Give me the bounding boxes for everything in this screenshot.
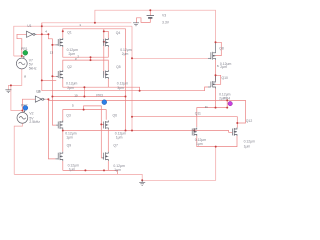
wire Q6 gate lead [101, 123, 103, 125]
wire net2-net3 link [90, 57, 92, 60]
op-amp buffer U1 [27, 31, 37, 37]
wire Q4 drain jog [104, 31, 109, 38]
svg-text:Q4: Q4 [116, 31, 121, 35]
svg-text:Q11: Q11 [195, 111, 201, 115]
wire Q8 drain bulk loop [216, 42, 222, 55]
wire bottom rail [14, 147, 216, 181]
svg-text:Q9: Q9 [67, 144, 72, 148]
svg-text:2μm: 2μm [67, 86, 74, 90]
svg-text:0.12μm: 0.12μm [244, 139, 256, 143]
transistor Q7 [104, 152, 109, 161]
svg-text:1μm: 1μm [69, 167, 76, 171]
wire net B long rail [48, 100, 245, 123]
wire V2 top [22, 99, 35, 110]
svg-text:U1: U1 [27, 24, 31, 28]
wire Q6-Q7 link [107, 129, 109, 151]
wire V2 bottom [14, 123, 22, 174]
wire net 5 spur [84, 106, 102, 158]
wire Q10 gate lead [208, 86, 211, 88]
battery V3 [147, 16, 154, 18]
wire Q8 drain lead [215, 42, 217, 51]
wire input A bus [41, 23, 43, 91]
ground (bottom) [139, 180, 145, 185]
wire Q4 drain-gate chain [103, 29, 105, 42]
svg-text:1μm: 1μm [66, 136, 73, 140]
transistor Q5 [104, 70, 109, 79]
svg-text:Q10: Q10 [222, 76, 229, 80]
wire Q2/Q5 source rail [63, 79, 140, 91]
wire Q3-Q9 link [62, 129, 64, 151]
svg-text:1μm: 1μm [114, 168, 121, 172]
svg-text:0.12μm: 0.12μm [117, 81, 129, 85]
svg-text:Q1: Q1 [67, 31, 72, 35]
wire Q5 source stub [107, 79, 109, 87]
ground (V7) [5, 90, 11, 93]
svg-text:Q5: Q5 [116, 65, 121, 69]
transistor Q4 [104, 38, 109, 47]
transistor Q8 [211, 51, 216, 60]
svg-text:10: 10 [74, 94, 78, 98]
wire Q10 bulk loop [216, 75, 221, 84]
wire NMOS source rail [63, 170, 118, 174]
transistor Q3 [56, 121, 63, 130]
wire buffer U1 output [36, 34, 55, 45]
wire Q2 bottom pin stub [42, 79, 56, 81]
transistor Q2 [56, 70, 63, 79]
ground (V3) [133, 23, 139, 26]
svg-text:13: 13 [50, 51, 54, 55]
wire upper rail net A [42, 23, 132, 26]
wire net 10 [52, 96, 125, 98]
svg-text:1μm: 1μm [116, 136, 123, 140]
wire buffer U1 input [17, 34, 27, 56]
transistor Q10 [211, 81, 216, 89]
wire Q10 drain lead [215, 75, 217, 80]
wire outer top-left loop [14, 26, 132, 56]
wire gate chain Q3 [52, 76, 56, 125]
transistor Q12 [232, 128, 237, 137]
svg-text:V2: V2 [29, 112, 33, 116]
wire Q1-Q4 drain rail [63, 29, 126, 131]
wire Q10 source [215, 89, 217, 108]
svg-text:V3: V3 [162, 14, 166, 18]
wire Q9 source [62, 161, 64, 170]
wire Q9 gate [48, 99, 55, 159]
svg-text:10: 10 [37, 89, 41, 93]
transistor Q9 [56, 152, 63, 161]
wire mid vertical from net A [131, 26, 133, 130]
svg-text:Q12: Q12 [246, 119, 253, 123]
wire Q7 gate lead [102, 157, 104, 159]
svg-text:11: 11 [205, 105, 208, 109]
svg-text:3μm: 3μm [117, 86, 124, 90]
wire V7 bottom to ground [8, 69, 21, 90]
svg-text:2μm: 2μm [69, 52, 76, 56]
svg-text:Q7: Q7 [113, 144, 118, 148]
svg-text:Q8: Q8 [219, 47, 224, 51]
svg-text:PR3: PR3 [96, 93, 103, 97]
wire V3 plus lead [149, 10, 151, 15]
svg-text:5kHz: 5kHz [29, 67, 37, 71]
source V7 [16, 58, 27, 69]
wire V7 top [14, 56, 22, 58]
wire Q11 gate rail [63, 131, 233, 133]
svg-text:2μm: 2μm [219, 97, 226, 101]
wire buffer U2 output [45, 99, 49, 100]
transistor Q11 [192, 128, 197, 137]
transistor Q1 [56, 38, 63, 47]
wire Q8 gate lead [208, 57, 211, 59]
svg-text:Q6: Q6 [113, 113, 118, 117]
wire net 3 Q2/Q5 drains [63, 60, 109, 70]
svg-text:2.5kHz: 2.5kHz [29, 120, 40, 124]
svg-text:Q3: Q3 [66, 113, 71, 117]
wire net10 link [83, 87, 85, 96]
wire VDD rail from V3 [95, 10, 216, 42]
svg-text:1μm: 1μm [244, 145, 251, 149]
wire G1 to V2 [11, 85, 23, 112]
svg-text:3.3V: 3.3V [162, 21, 170, 25]
transistor Q6 [104, 121, 109, 130]
wire gate chain Q5 [103, 42, 105, 75]
wire net 5 Q3 drain cross [63, 110, 106, 121]
source V2 [17, 112, 28, 123]
wire gate chain Q2 [52, 45, 56, 76]
wire Q12 gate rail [132, 117, 237, 128]
wire Q11/Q12 source rail [197, 136, 237, 147]
wire net 2 Q1/Q4 sources [63, 47, 109, 57]
wire Q8 gate [132, 57, 208, 59]
svg-text:Q2: Q2 [67, 65, 72, 69]
svg-text:2μm: 2μm [220, 65, 227, 69]
wire V3 minus zigzag [137, 18, 151, 23]
wire Q8 source [215, 60, 217, 81]
svg-text:1μm: 1μm [196, 142, 203, 146]
wire Q11/Q12 drain rail [197, 100, 227, 127]
svg-text:PR1: PR1 [21, 47, 28, 51]
wire Q7 source [107, 161, 109, 170]
wire A bus to Q10 gate [42, 87, 208, 91]
svg-text:0.12μm: 0.12μm [66, 81, 78, 85]
svg-text:2μm: 2μm [122, 52, 129, 56]
